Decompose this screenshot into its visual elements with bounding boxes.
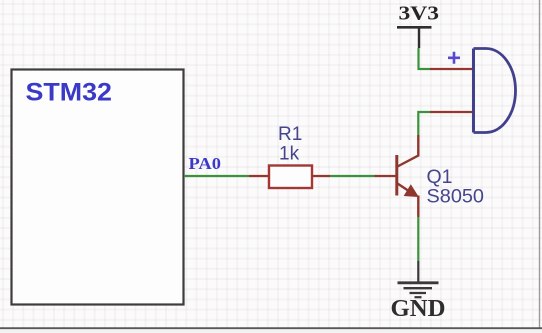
net label GND [391,295,446,322]
power rail 3V3 label [399,3,440,25]
sheet part STM32 (box) [12,70,184,305]
wire R1 right lead (red segment) [312,175,330,177]
resistor R1 body [269,166,312,189]
transistor Q1 collector diagonal [398,135,419,167]
wire collector corner (green segment) [418,112,430,135]
wire Q1 emitter down (red segment) [417,196,419,218]
power bar symbol 3V3 [397,26,432,29]
wire buzzer minus lead (red segment) [430,111,473,113]
value label 1k [279,144,300,165]
svg-text:PA0: PA0 [189,154,222,173]
wire Q1 base lead (red segment) [375,175,397,177]
svg-text:3V3: 3V3 [399,3,440,25]
designator Q1 [427,166,453,188]
transistor Q1 base bar [395,155,398,196]
label R1 [278,124,302,145]
wire buzzer plus lead (red segment) [430,68,473,70]
wire 3V3 down-right (green segment) [419,48,431,69]
wire into ground symbol (black segment) [417,261,419,282]
wire from power bar (black segment) [418,28,420,48]
svg-text:1k: 1k [279,144,300,165]
svg-text:S8050: S8050 [427,186,485,208]
part number S8050 [427,186,485,208]
pin name PA0 [189,154,222,173]
wire R1 to Q1 base (green segment) [330,175,375,177]
wire PA0 to R1 (green segment) [184,175,249,177]
window border right edge [539,0,541,333]
buzzer LS1 (speaker D symbol) [474,49,516,133]
svg-text:GND: GND [391,295,446,322]
svg-text:STM32: STM32 [26,79,113,107]
ground symbol GND [398,283,439,297]
window border bottom edge [0,328,542,333]
plus sign of buzzer [448,52,460,64]
label STM32 [26,79,113,107]
wire R1 left lead (red segment) [249,175,269,177]
svg-text:R1: R1 [278,124,302,145]
transistor Q1 emitter diagonal with arrow [398,184,419,197]
wire emitter to ground (green segment) [417,217,419,261]
